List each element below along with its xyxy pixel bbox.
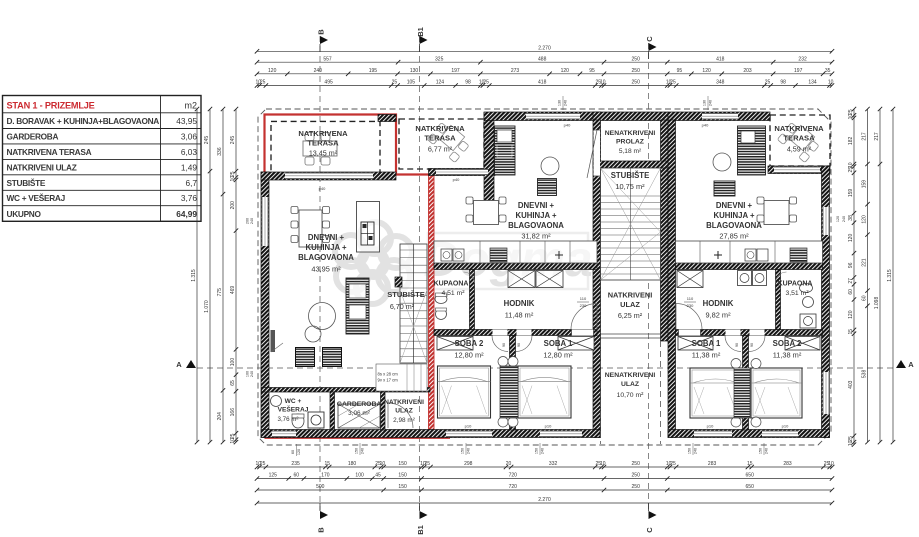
svg-text:GARDEROBA: GARDEROBA [337, 401, 382, 408]
svg-text:245: 245 [204, 136, 210, 145]
kitchen strip right unit [738, 126, 766, 175]
svg-text:150: 150 [535, 448, 539, 454]
svg-text:C: C [645, 36, 654, 42]
bed soba2 middle [438, 366, 491, 418]
svg-text:124: 124 [436, 80, 445, 86]
wall stair block right [661, 120, 669, 341]
red outline apartment STAN 1 [265, 115, 430, 438]
terrace 3 dashed outline (right) [770, 115, 830, 166]
svg-text:SOBA 1: SOBA 1 [544, 339, 573, 348]
svg-text:43,95: 43,95 [176, 116, 197, 126]
svg-text:336: 336 [217, 147, 223, 156]
svg-text:65: 65 [230, 380, 236, 386]
svg-text:235: 235 [291, 461, 300, 467]
wall terrace 2 bottom [429, 169, 496, 176]
svg-text:332: 332 [549, 461, 558, 467]
wc sink [271, 396, 282, 407]
door leaf middle unit right wall [587, 130, 597, 178]
wall mid unit left upper [484, 113, 494, 217]
counter row middle unit [434, 241, 597, 263]
svg-text:25: 25 [670, 80, 676, 86]
svg-text:60: 60 [291, 450, 295, 454]
svg-text:250: 250 [632, 56, 641, 62]
wall right unit left [668, 120, 676, 438]
svg-text:2.270: 2.270 [538, 497, 551, 503]
svg-text:10,70 m²: 10,70 m² [617, 392, 645, 399]
svg-text:DNEVNI +: DNEVNI + [518, 201, 555, 210]
svg-text:25: 25 [425, 461, 431, 467]
grid flag B1 top [420, 36, 428, 44]
svg-text:150: 150 [398, 484, 407, 490]
svg-text:469: 469 [230, 286, 236, 295]
kupaona middle fixtures [435, 295, 447, 304]
svg-text:240: 240 [564, 100, 568, 106]
sofa left wall [271, 330, 276, 352]
svg-text:4,59 m²: 4,59 m² [787, 145, 812, 154]
svg-text:90: 90 [735, 343, 739, 347]
svg-text:NATKRIVENI: NATKRIVENI [384, 399, 424, 406]
dimensions left col total [196, 109, 198, 442]
svg-text:90: 90 [517, 343, 521, 347]
svg-text:KUPAONA: KUPAONA [778, 281, 813, 288]
svg-text:A: A [908, 360, 914, 369]
svg-text:27: 27 [848, 278, 854, 284]
svg-text:130: 130 [410, 68, 419, 74]
svg-text:1.315: 1.315 [191, 269, 197, 282]
svg-text:180: 180 [348, 461, 357, 467]
svg-text:150: 150 [398, 461, 407, 467]
svg-text:120: 120 [561, 68, 570, 74]
svg-text:6,7: 6,7 [185, 178, 197, 188]
svg-text:273: 273 [511, 68, 520, 74]
wall hodnik/soba middle [434, 330, 597, 336]
svg-text:217: 217 [874, 132, 880, 141]
soba door arcs middle [492, 336, 508, 352]
wall bottom left+middle units [261, 430, 600, 438]
svg-text:p40: p40 [702, 123, 709, 128]
svg-text:720: 720 [509, 484, 518, 490]
svg-text:B1: B1 [416, 27, 425, 37]
kupaona right fixtures [800, 284, 813, 293]
red outline bottom band [265, 437, 451, 439]
svg-text:150: 150 [759, 448, 763, 454]
svg-text:232: 232 [798, 56, 807, 62]
dimensions right col total [892, 109, 894, 442]
wall kupaona right unit left [776, 270, 781, 330]
svg-text:150: 150 [398, 473, 407, 479]
svg-text:NATKRIVENA: NATKRIVENA [774, 124, 824, 133]
svg-text:221: 221 [861, 258, 867, 267]
svg-text:203: 203 [743, 68, 752, 74]
wall top stair block [593, 112, 668, 121]
svg-text:150: 150 [688, 448, 692, 454]
grid marker A right [896, 360, 906, 368]
svg-text:488: 488 [538, 56, 547, 62]
grid line B [319, 36, 321, 510]
svg-text:11,38 m²: 11,38 m² [773, 351, 802, 360]
svg-text:1,49: 1,49 [181, 162, 198, 172]
svg-text:6,25 m²: 6,25 m² [618, 311, 643, 320]
svg-text:p40: p40 [453, 177, 460, 182]
dining table right unit [764, 201, 789, 225]
svg-text:NATKRIVENA TERASA: NATKRIVENA TERASA [7, 147, 92, 157]
svg-text:NATKRIVENA: NATKRIVENA [298, 129, 348, 138]
kitchen strip middle unit [495, 126, 516, 175]
svg-text:60: 60 [294, 473, 300, 479]
window bottom soba2 mid [446, 431, 492, 438]
dimensions left col fine [235, 109, 237, 442]
wall stair block divider [593, 161, 668, 168]
bedside tables middle wall [500, 366, 518, 418]
svg-text:13,45 m²: 13,45 m² [309, 149, 338, 158]
svg-text:105: 105 [407, 80, 416, 86]
wall soba divider middle [510, 336, 516, 431]
washer [308, 412, 324, 428]
window top middle unit [526, 113, 580, 120]
svg-text:WC + VEŠERAJ: WC + VEŠERAJ [7, 192, 66, 203]
svg-text:418: 418 [716, 56, 725, 62]
dimensions bottom row mid [257, 478, 832, 480]
dining table middle unit [474, 201, 499, 225]
wall left unit interior bottom [262, 388, 431, 393]
svg-text:240: 240 [842, 216, 846, 222]
terrace 1 table set [303, 133, 337, 166]
svg-text:25: 25 [765, 80, 771, 86]
svg-text:283: 283 [783, 461, 792, 467]
svg-text:720: 720 [509, 473, 518, 479]
garderoba wardrobe [338, 404, 380, 428]
kitchen island left unit [357, 202, 380, 253]
wall garderoba divider [381, 392, 386, 430]
window bottom wc [272, 431, 296, 438]
svg-text:12,80 m²: 12,80 m² [454, 351, 484, 360]
svg-text:38: 38 [848, 215, 854, 221]
svg-text:538: 538 [862, 370, 868, 379]
bed soba1 right [690, 368, 741, 418]
svg-text:245: 245 [230, 136, 236, 145]
svg-text:230: 230 [687, 303, 694, 308]
svg-text:120: 120 [861, 215, 867, 224]
counter row right unit [676, 241, 823, 263]
svg-text:240: 240 [709, 100, 713, 106]
wall stub terrace 1 top-right [378, 115, 396, 122]
svg-text:170: 170 [321, 473, 330, 479]
svg-text:8s x 28 cm: 8s x 28 cm [378, 372, 399, 377]
svg-text:p10: p10 [545, 424, 552, 429]
round tables left unit [309, 303, 336, 330]
svg-text:20: 20 [506, 461, 512, 467]
terrace 2 dashed outline (middle) [399, 119, 484, 169]
svg-text:200: 200 [246, 218, 250, 224]
svg-text:250: 250 [632, 80, 641, 86]
svg-text:110: 110 [580, 296, 587, 301]
wardrobe soba1 right [678, 337, 713, 351]
svg-text:KUHINJA +: KUHINJA + [305, 243, 347, 252]
grid flag B bottom [320, 511, 328, 519]
svg-text:5,18 m²: 5,18 m² [619, 148, 642, 155]
svg-text:348: 348 [716, 80, 725, 86]
svg-text:STUBIŠTE: STUBIŠTE [7, 177, 46, 188]
svg-text:250: 250 [632, 484, 641, 490]
svg-text:WC +: WC + [285, 398, 302, 405]
lamp circle right [713, 153, 731, 171]
svg-text:25: 25 [260, 461, 266, 467]
wardrobe soba2 middle [437, 337, 473, 351]
svg-text:NATKRIVENI: NATKRIVENI [608, 291, 653, 300]
svg-text:11,38 m²: 11,38 m² [692, 351, 721, 360]
svg-text:PROLAZ: PROLAZ [616, 139, 644, 146]
svg-text:SOBA 2: SOBA 2 [455, 339, 484, 348]
svg-text:159: 159 [861, 180, 867, 189]
dimensions top row fine [257, 85, 832, 87]
plus sign right counter [714, 254, 722, 256]
svg-text:2,98 m²: 2,98 m² [393, 417, 415, 424]
dimensions top row segments [257, 61, 832, 63]
svg-text:325: 325 [435, 56, 444, 62]
svg-text:ULAZ: ULAZ [395, 408, 413, 415]
svg-text:HODNIK: HODNIK [504, 299, 535, 308]
svg-text:ULAZ: ULAZ [620, 300, 640, 309]
svg-text:TERASA: TERASA [783, 134, 815, 143]
svg-text:SOBA 1: SOBA 1 [692, 339, 721, 348]
svg-text:KUHINJA +: KUHINJA + [713, 211, 755, 220]
svg-text:NENATKRIVENI: NENATKRIVENI [605, 130, 656, 137]
svg-text:GARDEROBA: GARDEROBA [7, 131, 59, 141]
svg-text:204: 204 [217, 412, 223, 421]
svg-text:25: 25 [260, 80, 266, 86]
armchair 1 left unit [296, 348, 315, 367]
terrace 1 dashed outline (left) [271, 121, 380, 174]
svg-text:B: B [317, 29, 326, 35]
svg-text:120: 120 [702, 68, 711, 74]
wall left exterior [261, 172, 269, 438]
svg-text:240: 240 [467, 448, 471, 454]
svg-text:150: 150 [355, 448, 359, 454]
svg-text:25: 25 [483, 80, 489, 86]
wall mid unit right / stair block left [593, 120, 601, 438]
wall under counters right [676, 263, 823, 270]
entrance steps stair block [601, 333, 661, 335]
svg-text:p40: p40 [319, 186, 326, 191]
dimensions right col fine [853, 109, 855, 445]
svg-text:197: 197 [451, 68, 460, 74]
svg-text:2.270: 2.270 [538, 46, 551, 52]
svg-text:98: 98 [780, 80, 786, 86]
svg-text:1.098: 1.098 [874, 297, 880, 310]
svg-text:6,03: 6,03 [181, 147, 198, 157]
wardrobe soba2 right [785, 337, 820, 351]
dimensions bottom row 2.270 [257, 502, 832, 504]
svg-text:100: 100 [355, 473, 364, 479]
svg-text:240: 240 [541, 448, 545, 454]
svg-text:150: 150 [461, 448, 465, 454]
wc toilet [292, 414, 304, 428]
svg-text:11,48 m²: 11,48 m² [505, 311, 534, 320]
svg-text:125: 125 [269, 473, 278, 479]
kitchen counter strip left unit [346, 278, 369, 334]
bedside circles middle [498, 357, 508, 367]
small table middle [538, 179, 557, 196]
svg-text:Dogma: Dogma [423, 231, 592, 287]
door opening wall gaps right [679, 330, 701, 336]
svg-text:95: 95 [589, 68, 595, 74]
grid line A [197, 367, 893, 369]
hodnik right wardrobes [677, 271, 703, 288]
door arc hodnik-natkriveni ulaz middle [571, 304, 597, 330]
svg-text:240: 240 [765, 448, 769, 454]
kupaona right door arc [776, 272, 787, 283]
svg-text:159: 159 [848, 189, 854, 198]
wall wc divider [330, 392, 335, 430]
hodnik middle wardrobes [508, 271, 535, 288]
stairs lower landing [376, 364, 427, 391]
svg-text:ULAZ: ULAZ [621, 381, 639, 388]
svg-text:250: 250 [632, 68, 641, 74]
svg-text:B: B [317, 527, 326, 533]
window right wall lower [823, 372, 830, 414]
svg-text:3,51 m²: 3,51 m² [785, 290, 809, 297]
wall hodnik/soba right [676, 330, 823, 336]
window bottom soba2 right [762, 431, 798, 438]
svg-text:1.070: 1.070 [204, 300, 210, 313]
svg-text:9,82 m²: 9,82 m² [705, 311, 731, 320]
soba door arcs right [725, 336, 741, 352]
kupaona middle door arc [464, 272, 475, 283]
svg-text:15: 15 [848, 329, 854, 335]
svg-text:120: 120 [268, 68, 277, 74]
svg-text:p10: p10 [707, 424, 714, 429]
svg-text:6,77 m²: 6,77 m² [428, 145, 453, 154]
grid flag C bottom [649, 511, 657, 519]
svg-text:25: 25 [670, 461, 676, 467]
dimensions top row detail [257, 73, 832, 75]
svg-text:25: 25 [392, 80, 398, 86]
svg-text:166: 166 [230, 408, 236, 417]
svg-text:27,85 m²: 27,85 m² [719, 232, 749, 241]
terrace 2 table set [427, 120, 471, 163]
bed soba2 right [751, 368, 802, 418]
svg-text:250: 250 [632, 461, 641, 467]
wall right exterior [822, 166, 830, 438]
stairs main block [601, 168, 661, 280]
grid line B1 [419, 36, 421, 510]
svg-text:403: 403 [848, 380, 854, 389]
bedside circles right [731, 359, 741, 369]
window left wall living [262, 197, 269, 246]
wall terrace 3 bottom [768, 166, 830, 174]
plus sign middle counter [555, 254, 563, 256]
svg-text:12,80 m²: 12,80 m² [543, 351, 573, 360]
svg-text:775: 775 [217, 288, 223, 297]
svg-text:9v x 17 cm: 9v x 17 cm [378, 378, 399, 383]
svg-text:195: 195 [369, 68, 378, 74]
wardrobe soba1 middle [558, 337, 594, 351]
svg-text:3,06: 3,06 [181, 131, 198, 141]
wall soba divider right [743, 336, 749, 431]
door opening wall gaps middle [572, 330, 594, 336]
svg-text:100: 100 [246, 371, 250, 377]
wall top left unit (under terrace 1) [261, 172, 396, 180]
grid flag B top [320, 36, 328, 44]
svg-text:298: 298 [464, 461, 473, 467]
table STAN 1 - PRIZEMLJE [3, 96, 202, 222]
window right terrace door [774, 167, 820, 174]
svg-text:NATKRIVENA: NATKRIVENA [415, 124, 465, 133]
window left unit terrace door [285, 173, 373, 180]
terrace 3 table set [777, 120, 821, 163]
svg-text:UKUPNO: UKUPNO [7, 209, 42, 219]
svg-text:60: 60 [848, 289, 854, 295]
svg-text:B1: B1 [416, 525, 425, 535]
grid flag C top [649, 43, 657, 51]
grid marker A left [186, 360, 196, 368]
svg-text:3,76 m²: 3,76 m² [278, 416, 299, 423]
stair pier [395, 277, 402, 287]
svg-text:495: 495 [324, 80, 333, 86]
svg-text:130: 130 [558, 100, 562, 106]
svg-text:217: 217 [862, 132, 868, 141]
svg-text:45: 45 [375, 473, 381, 479]
wall bottom right unit [668, 430, 830, 438]
dimensions right col mid [867, 109, 869, 442]
svg-text:SOBA 2: SOBA 2 [773, 339, 802, 348]
svg-text:p10: p10 [782, 424, 789, 429]
svg-text:90: 90 [502, 343, 506, 347]
svg-text:110: 110 [687, 296, 694, 301]
svg-text:TERASA: TERASA [424, 134, 456, 143]
svg-text:60: 60 [861, 295, 867, 301]
svg-text:3,76: 3,76 [181, 193, 198, 203]
dimensions bottom row segments [257, 489, 832, 491]
stairs left unit [400, 244, 427, 363]
dimensions left col mid [222, 109, 224, 442]
svg-text:240: 240 [250, 371, 254, 377]
svg-text:120: 120 [848, 234, 854, 243]
dining table left unit [299, 210, 322, 247]
svg-text:230: 230 [580, 303, 587, 308]
svg-text:120: 120 [297, 449, 301, 455]
grid flag B1 bottom [420, 511, 428, 519]
lamp circle middle [541, 157, 559, 175]
window top right unit [702, 113, 738, 120]
watermark overlay copy [335, 222, 593, 304]
wall top middle unit [484, 112, 601, 121]
svg-text:130: 130 [703, 100, 707, 106]
svg-text:134: 134 [808, 80, 817, 86]
svg-text:STUBIŠTE: STUBIŠTE [611, 171, 650, 180]
window middle terrace door [436, 169, 488, 175]
svg-text:DNEVNI +: DNEVNI + [716, 201, 753, 210]
svg-text:NATKRIVENI ULAZ: NATKRIVENI ULAZ [7, 162, 77, 172]
svg-text:6,70 m²: 6,70 m² [390, 302, 415, 311]
wall top right unit [668, 112, 770, 121]
svg-text:240: 240 [694, 448, 698, 454]
nenatkriveni ulaz dashed sides [600, 341, 602, 444]
svg-text:p10: p10 [465, 424, 472, 429]
svg-text:182: 182 [848, 137, 854, 146]
window right wall upper [823, 207, 830, 235]
svg-text:240: 240 [314, 68, 323, 74]
svg-text:4,51 m²: 4,51 m² [441, 290, 465, 297]
svg-text:p40: p40 [564, 123, 571, 128]
svg-text:418: 418 [538, 80, 547, 86]
door arc hodnik right unit [676, 304, 702, 330]
svg-text:NENATKRIVENI: NENATKRIVENI [605, 372, 656, 379]
svg-text:10,75 m²: 10,75 m² [615, 182, 645, 191]
svg-text:500: 500 [316, 484, 325, 490]
wall under counters middle [434, 263, 597, 270]
dimensions right col 217/1098 [879, 109, 881, 442]
